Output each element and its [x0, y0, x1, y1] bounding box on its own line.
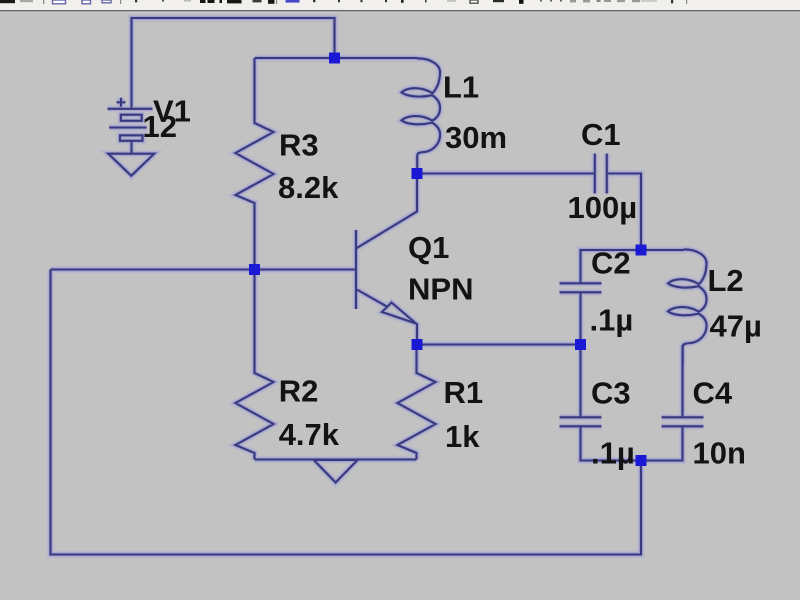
svg-text:C4: C4	[693, 376, 733, 411]
svg-text:47µ: 47µ	[710, 309, 762, 344]
svg-text:L2: L2	[708, 263, 744, 298]
svg-text:R2: R2	[279, 374, 319, 409]
svg-text:R1: R1	[444, 375, 484, 410]
svg-text:4.7k: 4.7k	[279, 417, 340, 452]
svg-text:.1µ: .1µ	[591, 436, 635, 471]
svg-text:Q1: Q1	[408, 230, 449, 265]
svg-text:R3: R3	[279, 127, 319, 162]
svg-text:NPN: NPN	[408, 272, 473, 307]
svg-text:30m: 30m	[445, 120, 507, 155]
svg-text:10n: 10n	[693, 436, 746, 471]
svg-text:C1: C1	[581, 117, 621, 152]
svg-text:8.2k: 8.2k	[278, 170, 339, 205]
svg-text:.1µ: .1µ	[590, 303, 634, 338]
svg-text:1k: 1k	[445, 419, 480, 454]
svg-text:C3: C3	[591, 376, 631, 411]
svg-text:C2: C2	[591, 246, 631, 281]
svg-text:12: 12	[143, 109, 177, 144]
svg-text:100µ: 100µ	[568, 190, 638, 225]
svg-text:L1: L1	[443, 70, 479, 105]
